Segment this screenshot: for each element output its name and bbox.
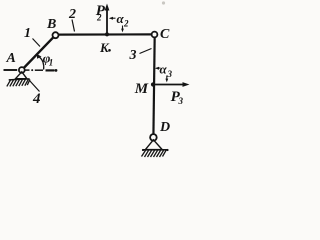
support triangle at A bbox=[16, 72, 27, 79]
force P2 arrow at K bbox=[106, 7, 108, 34]
ground line at A bbox=[9, 79, 30, 80]
link 2 (B-C) bbox=[56, 33, 155, 35]
svg-text:K: K bbox=[99, 40, 110, 55]
node M (junction dot) bbox=[151, 82, 155, 86]
pin joint B bbox=[53, 32, 59, 38]
ground line at D bbox=[143, 149, 169, 151]
svg-text:α: α bbox=[160, 62, 168, 77]
svg-text:1: 1 bbox=[24, 26, 31, 41]
svg-text:D: D bbox=[159, 120, 170, 135]
svg-text:M: M bbox=[134, 81, 149, 97]
ground hatching at D bbox=[142, 150, 167, 157]
alpha2 leader arrow to link 2 bbox=[122, 26, 124, 31]
svg-text:2: 2 bbox=[96, 13, 102, 23]
ground hatching at A bbox=[6, 79, 30, 87]
alpha3 leader arrow to P3 line bbox=[166, 76, 168, 81]
svg-text:A: A bbox=[6, 51, 16, 66]
faint scan fleck top right bbox=[162, 1, 165, 4]
svg-text:3: 3 bbox=[167, 69, 173, 79]
pin joint A bbox=[19, 67, 25, 73]
centerline through A (dash-dot) bbox=[4, 69, 58, 72]
svg-text:3: 3 bbox=[178, 96, 184, 106]
angle arc phi1 with arrowhead bbox=[39, 57, 43, 70]
svg-text:2: 2 bbox=[123, 19, 129, 29]
node K (junction dot) bbox=[105, 32, 109, 36]
link 3 (C-D) bbox=[153, 35, 154, 137]
svg-text:4: 4 bbox=[32, 91, 41, 107]
svg-text:1: 1 bbox=[49, 58, 54, 68]
alpha3 leader arrow to link 3 bbox=[157, 67, 161, 69]
alpha2 leader arrow to P2 line bbox=[111, 17, 116, 19]
link 1 (crank A-B) bbox=[22, 35, 56, 70]
leader line to label 4 bbox=[30, 81, 40, 92]
support triangle at D bbox=[145, 140, 162, 150]
svg-text:C: C bbox=[160, 27, 170, 42]
pin joint D bbox=[150, 134, 157, 141]
svg-text:B: B bbox=[46, 17, 56, 32]
svg-text:3: 3 bbox=[129, 48, 137, 63]
force P3 arrow at M bbox=[153, 84, 186, 86]
pin joint C bbox=[152, 32, 158, 38]
